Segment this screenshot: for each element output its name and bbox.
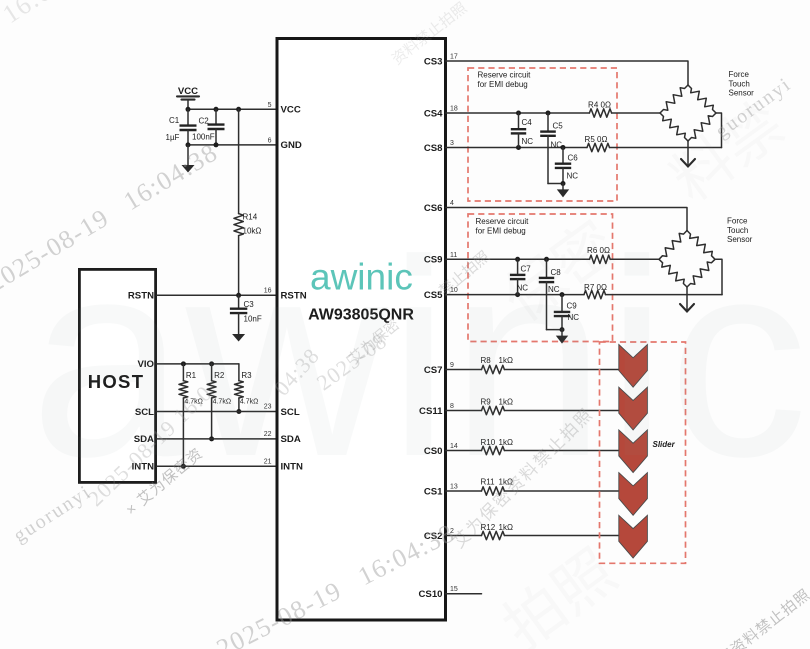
svg-text:R5 0Ω: R5 0Ω [585,135,608,144]
wire CS5 [446,294,584,296]
wire CS8 to bridge right leg [610,147,722,149]
junction C5 top [546,111,551,116]
svg-text:R4 0Ω: R4 0Ω [588,101,611,110]
svg-text:C6: C6 [568,154,579,163]
resistor R3 4.7k [235,364,259,412]
junction R3 bottom [236,409,241,414]
svg-text:VCC: VCC [281,105,301,116]
wire CS3 to bridge [446,61,688,85]
ground reserve 2 [561,330,563,336]
svg-text:料禁: 料禁 [659,89,795,214]
svg-text:for EMI debug: for EMI debug [478,80,528,89]
op-amp U1 AW93805QNR chip body [277,39,446,621]
dashed box reserve circuit 1 [468,68,617,201]
slider arrow 1 [619,345,648,388]
svg-text:CS3: CS3 [424,56,443,67]
wire CS8 [446,147,587,149]
svg-text:3: 3 [450,140,454,147]
wire CS line for R8 [446,369,482,371]
wire CS line for R9 [446,410,482,412]
wire bridge2 right leg [715,259,722,294]
ground arrow bridge 1 [687,141,689,166]
svg-text:5: 5 [268,102,272,109]
slider arrow 2 [619,387,648,430]
watermark big chinese faint right [491,209,627,334]
power symbol VCC [177,86,199,109]
wire CS4 [446,112,590,114]
ground below C1 [187,145,189,165]
svg-text:NC: NC [551,141,563,150]
svg-text:CS4: CS4 [424,108,443,119]
wire R10 to slider [504,450,618,452]
wire RSTN [157,294,276,296]
wire CS10 stub [446,593,482,595]
slider arrow 4 [619,473,648,516]
junction C7 bottom [515,292,520,297]
watermark chinese bottom-right [677,586,810,649]
slider arrow 5 [619,515,648,558]
watermark chinese near CS2 [449,404,597,552]
watermark chinese right of chip [436,248,493,300]
node VCC-R14 [236,107,241,112]
svg-text:CS8: CS8 [424,143,443,154]
capacitor C4 [511,113,533,148]
watermark chinese top [389,0,470,68]
dashed box reserve circuit 2 [468,214,613,342]
resistor R10 1k [481,438,513,455]
wire R9 to slider [504,410,618,412]
svg-text:C2: C2 [199,117,210,126]
wire SDA [157,438,276,440]
watermark timestamp center b [312,328,392,395]
svg-text:6: 6 [268,138,272,145]
wire INTN [157,465,276,467]
watermark chinese mid-left [123,445,207,519]
wire CS5 to bridge right leg [606,294,723,296]
watermark timestamp left [0,137,223,297]
watermark timestamp center [269,343,324,401]
resistor R8 1k [481,356,513,374]
wire VIO [157,363,239,365]
ground reserve 1 [562,184,564,190]
capacitor C8 [539,259,561,329]
resistor R6 0ohm [587,246,610,264]
node VIO-R1 [181,361,186,366]
junction R1 bottom [181,464,186,469]
watermark timestamp top-left corner [0,0,101,29]
junction C6 ground [561,181,566,186]
capacitor C2 [192,109,225,145]
wire R12 to slider [504,535,618,537]
junction C8 top [544,257,549,262]
node RSTN-R14 [236,293,241,298]
force touch sensor bridge 2 [659,231,715,288]
node VCC-C1 [186,107,191,112]
watermark guorunyi bottom-left [10,481,96,547]
resistor R4 0ohm [588,101,612,118]
junction C7 top [515,257,520,262]
svg-text:Touch: Touch [729,79,750,88]
svg-text:C1: C1 [169,116,180,125]
watermark timestamp bottom [212,518,460,649]
HOST block [79,269,155,482]
svg-text:17: 17 [450,54,458,61]
node GND-C1 [186,142,191,147]
resistor R12 1k [481,523,513,540]
dashed box slider [600,342,686,563]
watermark chinese mid chip [346,316,403,368]
junction R2 bottom [209,436,214,441]
wire CS line for R12 [446,535,482,537]
capacitor C5 [540,113,563,184]
wire R8 to slider [504,369,618,371]
svg-text:15: 15 [450,586,458,593]
resistor R7 0ohm [584,283,607,299]
ground below C3 [238,313,240,334]
svg-text:1µF: 1µF [166,133,180,142]
wire CS6 to bridge [446,208,687,231]
wire CS line for R11 [446,490,482,492]
junction C4 top [516,111,521,116]
capacitor C9 [554,295,579,330]
svg-text:16:04:38: 16:04:38 [0,0,101,29]
svg-text:C5: C5 [553,122,564,131]
capacitor C6 [555,148,578,184]
svg-text:18: 18 [450,106,458,113]
junction C6 top [561,145,566,150]
junction C9 ground [560,327,565,332]
resistor R1 4.7k [179,364,203,466]
resistor R5 0ohm [585,135,610,152]
svg-text:C4: C4 [522,118,533,127]
wire R11 to slider [504,490,618,492]
wire CS line for R10 [446,450,482,452]
svg-text:GND: GND [281,140,302,151]
wire GND rail [188,144,276,146]
wire bridge1 right leg [716,113,722,148]
svg-text:Force: Force [729,70,750,79]
resistor R2 4.7k [207,364,231,439]
resistor R11 1k [481,477,513,495]
wire SCL [157,411,276,413]
force touch sensor bridge 1 [660,85,716,141]
svg-text:Reserve circuit: Reserve circuit [478,71,532,80]
node VIO-R2 [209,361,214,366]
svg-text:CS10: CS10 [419,589,443,600]
resistor R14 10k [234,109,261,295]
ground arrow bridge 2 [686,287,688,311]
wire CS9 [446,258,590,260]
watermark guorunyi top-right [711,73,795,143]
svg-text:艾为保密资料禁止拍照: 艾为保密资料禁止拍照 [677,586,810,649]
wire C5 bottom to C6 bottom [548,183,563,185]
svg-text:NC: NC [567,172,579,181]
junction C9 top [560,292,565,297]
capacitor C3 [230,295,262,323]
wire CS4 to bridge left [612,112,660,114]
node GND-C2 [214,142,219,147]
svg-text:1kΩ: 1kΩ [499,523,513,532]
wire VCC rail [188,108,276,110]
wire CS9 to bridge left [610,258,659,260]
slider arrow 3 [619,430,648,473]
junction C4 bottom [516,145,521,150]
svg-text:NC: NC [522,137,534,146]
resistor R9 1k [481,397,513,414]
node VCC-C2 [214,107,219,112]
capacitor C7 [510,259,531,294]
watermark timestamp mid-left [83,380,217,511]
svg-text:awinic: awinic [30,203,808,515]
svg-text:拍照: 拍照 [491,537,627,649]
wire C8 bottom to C9 bottom [547,329,563,331]
capacitor C1 [166,109,197,145]
